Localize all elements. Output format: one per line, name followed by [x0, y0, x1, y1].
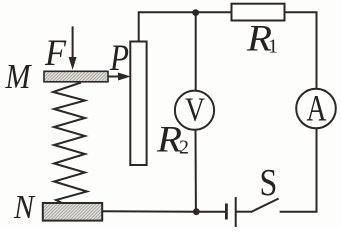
svg-text:2: 2: [179, 137, 189, 159]
ammeter A: [296, 89, 336, 129]
svg-text:M: M: [5, 57, 32, 96]
slider arrow P: [108, 73, 129, 80]
wire: bar top to top rail: [138, 12, 140, 41]
resistor R1: [232, 4, 285, 21]
svg-text:P: P: [109, 38, 129, 79]
svg-text:A: A: [307, 88, 327, 129]
plate N (bottom plate): [43, 203, 102, 221]
svg-text:F: F: [44, 33, 66, 74]
svg-text:V: V: [185, 91, 205, 128]
spring: [53, 83, 87, 204]
wire: voltmeter to bottom junction: [195, 130, 197, 212]
wire: ammeter to bottom right corner: [280, 128, 317, 211]
voltmeter V: [175, 91, 214, 130]
svg-text:1: 1: [268, 36, 278, 58]
force arrow F: [69, 26, 76, 68]
wire: top junction to voltmeter: [195, 13, 197, 91]
node: top junction: [192, 9, 199, 16]
plate M (top plate): [44, 71, 108, 82]
wire: top rail: [138, 11, 232, 13]
rheostat R2 bar: [130, 42, 146, 166]
battery: [197, 197, 236, 227]
node: bottom junction: [193, 208, 200, 215]
wire: plate N to bottom junction: [102, 210, 196, 212]
wire: R1 to right rail: [285, 12, 317, 88]
svg-text:S: S: [260, 162, 278, 204]
switch S: [236, 199, 279, 213]
svg-text:N: N: [13, 189, 36, 226]
